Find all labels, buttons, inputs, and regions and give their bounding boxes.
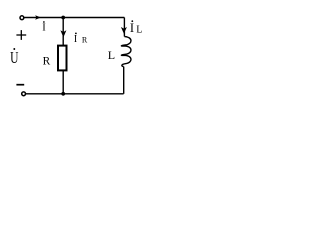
label: current İ (phasor) under top wire: [42, 21, 46, 33]
inductor L (coil of three scroll loops): [121, 37, 131, 67]
svg-text:L: L: [108, 48, 115, 62]
label: R value: [43, 56, 51, 68]
svg-text:I: I: [130, 21, 134, 35]
arrow: current İL direction on inductor branch: [121, 27, 127, 34]
node: top junction where resistor branch taps the top wire: [61, 16, 65, 20]
svg-text:R: R: [82, 36, 88, 45]
svg-text:U: U: [10, 49, 18, 68]
svg-text:I: I: [74, 34, 77, 45]
wire: right branch vertical from top corner down to inductor: [123, 18, 125, 37]
resistor R (rectangle body): [58, 46, 67, 71]
wire: resistor bottom lead down to bottom wire: [62, 70, 64, 93]
label: voltage Ú (phasor) at source: [10, 48, 18, 67]
label: L value: [108, 48, 115, 62]
label: current İR (phasor) beside resistor branch arrow: [74, 33, 88, 46]
wire: bottom horizontal return wire: [26, 93, 124, 95]
wire: inductor bottom lead and bottom-right corner: [123, 67, 125, 94]
label: plus polarity of source voltage: [16, 30, 26, 40]
background: [0, 0, 149, 101]
svg-text:R: R: [43, 56, 51, 68]
node: bottom junction where resistor branch meets bottom wire: [61, 92, 65, 96]
svg-text:L: L: [136, 24, 142, 35]
label: current İL (phasor) beside inductor branch: [130, 20, 142, 35]
terminal: bottom-left input (open circle): [22, 92, 26, 96]
svg-text:I: I: [42, 23, 46, 34]
wire: resistor branch vertical (junction to resistor top): [62, 18, 64, 46]
wire: top horizontal from source + terminal to inductor branch: [24, 17, 124, 19]
label: minus polarity of source voltage: [16, 84, 24, 86]
arrow: current İR direction on resistor branch: [60, 30, 66, 37]
arrow: current I direction on top wire: [35, 15, 41, 20]
terminal: top-left input (open circle): [20, 16, 24, 20]
